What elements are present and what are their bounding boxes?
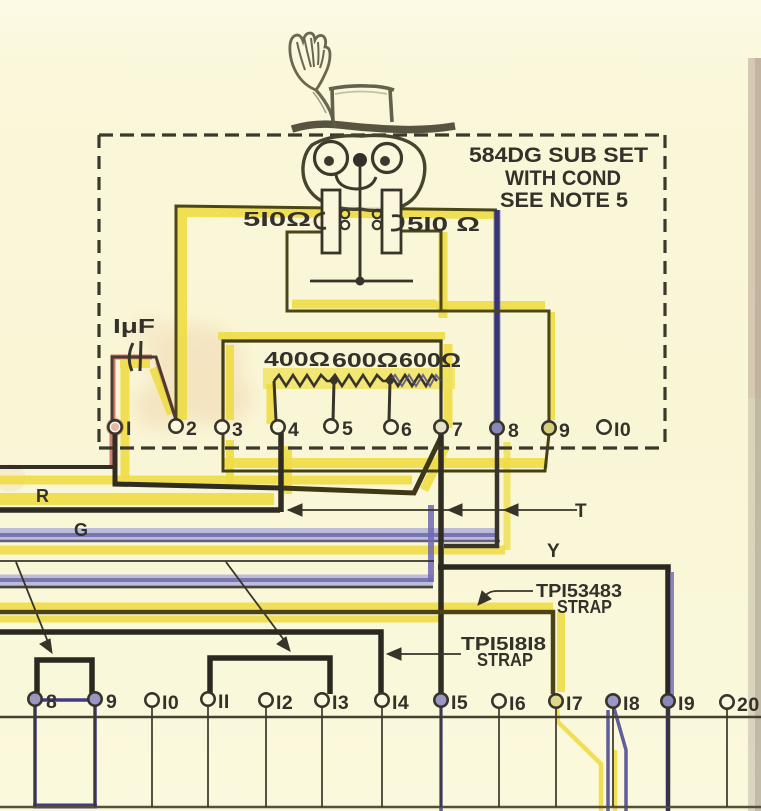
wire highlight: O4 column: [284, 446, 292, 494]
terminals 8-20: [28, 692, 733, 708]
doodle hat brim: [292, 124, 455, 129]
wire highlight: strap TP153483 leg to terminal 17: [557, 612, 565, 692]
wire highlight: ringer inner loop bottom: [292, 300, 436, 309]
dashed enclosure 584DG sub set: [99, 135, 665, 448]
svg-text:8: 8: [46, 691, 57, 713]
wire: blue lead below terminal 18 right: [614, 708, 626, 811]
svg-text:I: I: [126, 418, 132, 440]
pin numbers 8-20: [46, 691, 760, 716]
node 4: [271, 420, 284, 433]
T pointer line with arrowheads: [288, 504, 577, 516]
node 5: [324, 419, 337, 432]
wire highlight: bottom link toward terminal 9: [436, 301, 545, 309]
wire: blue lead below terminal 15: [439, 706, 443, 811]
svg-text:G: G: [74, 520, 88, 540]
node 10 lower: [145, 693, 158, 706]
node 8: [490, 421, 503, 434]
wire G lead lower edge: [0, 540, 500, 543]
svg-text:T: T: [575, 501, 587, 522]
node 9: [542, 421, 555, 434]
wires: thin drops below terminal strip: [35, 706, 727, 807]
doodle left pupil: [324, 156, 334, 166]
wire: link to terminal 7 diagonal: [281, 437, 441, 493]
wire highlight: capacitor horizontal run: [120, 360, 150, 368]
doodle right eye: [373, 144, 402, 173]
wire: blue riser beside terminal 7 column: [428, 505, 434, 582]
pointer line above Y lead: [0, 560, 434, 562]
wire: drop from ringer top to terminal 8: [494, 210, 500, 429]
node 7: [434, 420, 447, 433]
svg-text:584DG SUB SET: 584DG SUB SET: [469, 144, 648, 167]
svg-text:STRAP: STRAP: [557, 596, 612, 617]
wire highlight: resistor right leg to terminal 7: [444, 344, 453, 428]
node 8 lower: [28, 692, 41, 705]
wire: blue lead below terminal 18 left: [606, 710, 610, 811]
ringer armature line and clapper stem: [310, 165, 413, 281]
node 18: [606, 694, 619, 707]
strap terminals 11-13: [210, 658, 330, 694]
svg-text:I0: I0: [614, 419, 631, 441]
wire: terminal 8 column down to strap toward terminal 7: [444, 430, 497, 546]
node 10: [597, 420, 610, 433]
wire highlight: red trace on capacitor branch: [113, 357, 175, 468]
wire: terminal 7 column down to terminal 15: [438, 432, 444, 694]
pointer arrow for TP153483: [478, 591, 533, 605]
node 19: [661, 694, 674, 707]
wire highlight: terminal 3 riser and resistor top run: [218, 336, 445, 420]
terminal strip lower rail: [0, 806, 761, 808]
terminals 1-10: [108, 419, 610, 434]
svg-text:6: 6: [401, 419, 412, 441]
wire highlight: ringer inner loop right leg: [439, 232, 448, 318]
doodle hat body: [329, 86, 394, 124]
node 9 lower: [88, 692, 101, 705]
wire highlight: terminal 9 riser: [547, 312, 555, 420]
pin numbers 1-10: [126, 418, 631, 442]
wire: thin lead under blue band: [0, 586, 433, 589]
svg-text:R: R: [36, 486, 49, 506]
ringer coil L2 510 ohm: [382, 190, 401, 253]
svg-text:I4: I4: [392, 692, 409, 714]
doodle right pupil: [380, 156, 390, 166]
wire: capacitor C1 branch terminal 1 to terminal 2: [112, 357, 176, 424]
wire highlight: R lead band: [0, 493, 274, 505]
wire: lead from left edge into terminal 1 column: [0, 465, 117, 469]
wire: Y lead to terminal 19: [438, 567, 668, 695]
wire highlight: node 3 to node 9 link: [224, 458, 548, 468]
wire: thick lead to terminal 14: [0, 632, 381, 694]
doodle smile: [336, 175, 376, 189]
node 6: [384, 420, 397, 433]
wire: loop bottom extension to terminal 9: [441, 311, 549, 421]
svg-text:I8: I8: [623, 693, 640, 715]
svg-text:9: 9: [559, 420, 570, 442]
node 15: [434, 693, 447, 706]
wire highlight: capacitor diagonal to terminal 2: [153, 368, 171, 414]
svg-text:9: 9: [106, 691, 117, 713]
wire: terminal 4 vertical: [278, 430, 284, 512]
strap terminals 8-9: [37, 660, 92, 694]
wire: terminal 1 down and right: [115, 432, 281, 488]
svg-text:400Ω: 400Ω: [264, 349, 330, 371]
wire: dark lead below terminal 19: [666, 706, 671, 811]
wire highlight: blue on terminal 8 drop: [493, 210, 501, 430]
node 1: [108, 420, 121, 433]
node 16: [492, 694, 505, 707]
svg-text:7: 7: [452, 419, 463, 441]
svg-text:5: 5: [342, 418, 353, 440]
wire highlight: resistor network area: [263, 368, 455, 389]
svg-text:5I0Ω: 5I0Ω: [243, 209, 311, 231]
terminal strip upper rail: [0, 716, 761, 719]
wire: node 3 to node 9 lower link: [223, 433, 549, 471]
svg-text:5I0 Ω: 5I0 Ω: [407, 214, 480, 236]
node 14: [375, 693, 388, 706]
wire: terminal 2 up and across ringer top: [176, 206, 497, 421]
junction: resistor tap node 5: [330, 377, 337, 384]
resistor string 400 ohm 600 ohm 600 ohm: [274, 375, 437, 386]
svg-text:STRAP: STRAP: [477, 649, 533, 670]
wire: second blue lead core: [0, 578, 433, 582]
svg-text:I9: I9: [678, 693, 695, 715]
wire highlight: lead below terminal 17: [557, 708, 601, 811]
svg-text:3: 3: [232, 419, 243, 441]
node 12: [259, 693, 272, 706]
svg-text:4: 4: [288, 419, 299, 441]
svg-text:SEE NOTE 5: SEE NOTE 5: [500, 189, 628, 212]
pointer arrow to strap 8-9: [16, 562, 52, 653]
resistor right section blue tint: [390, 375, 441, 386]
svg-text:II: II: [218, 691, 230, 713]
pointer arrow to strap 11-13: [226, 562, 290, 651]
svg-text:I6: I6: [509, 693, 526, 715]
doodle face outline: [303, 135, 425, 210]
junction: resistor tap node 6: [386, 377, 393, 384]
wire G lead core: [0, 533, 497, 537]
svg-text:600Ω: 600Ω: [399, 350, 461, 372]
node 13: [315, 693, 328, 706]
svg-text:I2: I2: [276, 692, 293, 714]
label hook left: [315, 213, 326, 228]
node 1 red mark: [106, 418, 124, 436]
wire highlight: resistor left leg to terminal 4: [267, 384, 276, 424]
capacitor C1 plates 1uF: [129, 343, 133, 371]
wire: strap TP153483 to terminal 17: [0, 612, 553, 694]
wire highlight: terminal 2 riser and ringer top run: [182, 212, 497, 420]
wire highlight: terminal 7 diagonal: [424, 446, 446, 490]
doodle nose dot: [353, 153, 367, 167]
wire highlight: terminal 3 column below row: [226, 440, 234, 484]
label hook right: [391, 216, 403, 230]
svg-text:I7: I7: [566, 693, 583, 715]
wire: R lead: [0, 507, 280, 513]
wire highlight: above R lead run: [0, 476, 412, 485]
wire highlight: band under G lead: [0, 546, 505, 555]
svg-text:20: 20: [737, 694, 760, 716]
node 3: [215, 420, 228, 433]
node 17: [549, 694, 562, 707]
svg-text:IμF: IμF: [113, 316, 155, 338]
svg-text:600Ω: 600Ω: [332, 350, 398, 372]
svg-text:Y: Y: [547, 541, 560, 562]
svg-text:I0: I0: [162, 692, 179, 714]
ringer center stem: [359, 167, 362, 281]
coil turns: [341, 210, 381, 229]
wire: blue loop under terminals 8-9: [33, 700, 97, 806]
svg-text:8: 8: [508, 420, 519, 442]
wire highlight: strap TP153483 run: [0, 606, 553, 619]
wire highlight: terminal 8 column: [504, 442, 511, 550]
wire G lead band: [0, 528, 497, 540]
wire highlight: blue beside Y drop: [670, 572, 674, 695]
node 1 red fill: [111, 423, 119, 431]
wire: second blue lead band: [0, 575, 433, 586]
wire: taps from resistor string to terminals 4 5 6 7: [274, 381, 441, 421]
svg-text:WITH COND: WITH COND: [505, 167, 621, 190]
pointer arrow for TP151818: [387, 648, 461, 660]
doodle left eye: [315, 142, 348, 175]
wire highlight: lead below terminal 18: [613, 750, 618, 811]
svg-text:I5: I5: [451, 692, 468, 714]
ringer coil L1 510 ohm: [322, 190, 340, 253]
node 11: [201, 692, 214, 705]
node 20: [720, 695, 733, 708]
junction: armature center: [356, 277, 365, 286]
doodle feather: [290, 33, 335, 127]
wire highlight: capacitor branch at terminal 1: [121, 366, 130, 478]
wire: terminal 3 riser across to terminal 7: [223, 341, 441, 420]
svg-text:2: 2: [186, 418, 197, 440]
wire: ringer inner loop: [287, 231, 441, 311]
node 2: [169, 419, 182, 432]
svg-text:I3: I3: [332, 692, 349, 714]
